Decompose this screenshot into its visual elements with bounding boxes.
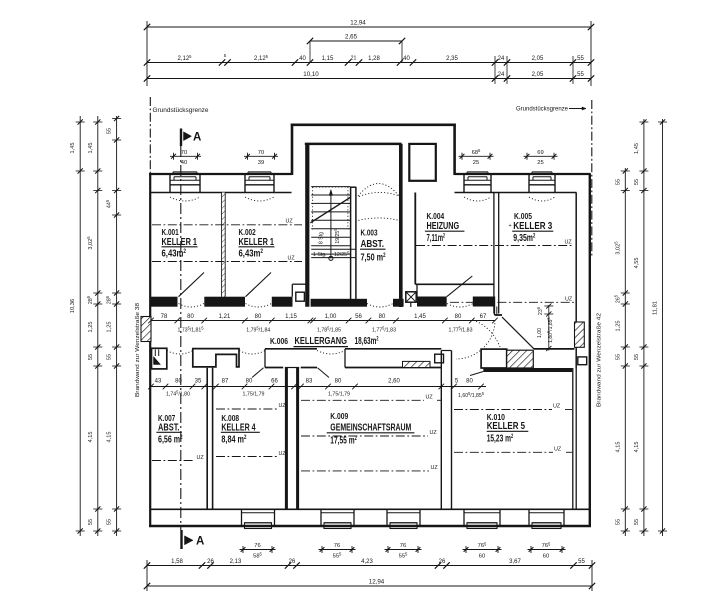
corridor dimension chain upper bbox=[151, 320, 495, 322]
partition wall K.001/K.002 bbox=[222, 193, 226, 297]
svg-text:4,15: 4,15 bbox=[634, 442, 640, 453]
window dimension bbox=[459, 155, 494, 157]
partition K.007/K.008 bbox=[206, 368, 208, 510]
interior wall right inner face (K.005 east) bbox=[575, 193, 577, 323]
svg-text:2,65: 2,65 bbox=[345, 34, 358, 41]
svg-text:6,43m2: 6,43m2 bbox=[162, 249, 187, 260]
svg-text:40: 40 bbox=[403, 56, 410, 62]
extension line left bbox=[146, 21, 148, 86]
corridor south wall segment 3 bbox=[265, 348, 317, 350]
entrance shaft box bbox=[409, 144, 436, 181]
dimension chain row top bbox=[147, 62, 591, 64]
svg-text:Brandwand zur Wenzelstraße 42: Brandwand zur Wenzelstraße 42 bbox=[597, 313, 603, 407]
corridor north wall segment 2 bbox=[204, 297, 245, 307]
svg-text:15,23 m2: 15,23 m2 bbox=[487, 434, 514, 445]
bottom window dimension bbox=[319, 549, 356, 551]
beam UZ line K.007 bbox=[152, 460, 195, 462]
svg-text:67: 67 bbox=[480, 314, 487, 320]
svg-text:K.004: K.004 bbox=[427, 212, 445, 221]
window dimension bbox=[524, 155, 558, 157]
svg-text:Brandwand zur Wenzelstraße 38: Brandwand zur Wenzelstraße 38 bbox=[135, 303, 141, 397]
svg-text:40: 40 bbox=[181, 160, 187, 166]
exterior wall top-left outer bbox=[149, 173, 292, 175]
window K.005 (top wall) bbox=[528, 175, 530, 193]
svg-text:69: 69 bbox=[537, 150, 543, 156]
dotted reveal arc window K.005 bbox=[529, 197, 555, 201]
partition K.008/K.009 west leaf bbox=[285, 368, 288, 510]
svg-text:9,35m2: 9,35m2 bbox=[513, 233, 535, 244]
svg-text:83: 83 bbox=[306, 379, 313, 385]
svg-text:2,35: 2,35 bbox=[446, 56, 458, 62]
svg-text:1,45: 1,45 bbox=[634, 143, 640, 154]
svg-text:17,55 m2: 17,55 m2 bbox=[330, 436, 357, 447]
svg-text:40: 40 bbox=[299, 56, 306, 62]
svg-text:60: 60 bbox=[479, 554, 485, 560]
svg-text:265​: 265​ bbox=[614, 294, 622, 303]
window dimension bbox=[170, 155, 201, 157]
hatched chimney right bbox=[507, 350, 534, 368]
svg-text:1,21: 1,21 bbox=[219, 314, 231, 320]
beam UZ line K.008 lower bbox=[216, 456, 278, 458]
bottom window dimension bbox=[240, 549, 276, 551]
stair walking line bbox=[330, 191, 332, 259]
svg-text:285​: 285​ bbox=[86, 295, 94, 304]
window K.010 west (bottom wall) bbox=[463, 509, 465, 526]
svg-text:1,00: 1,00 bbox=[325, 314, 337, 320]
door K.002 swing arc dotted bbox=[246, 304, 272, 308]
duct square in wall bbox=[435, 354, 444, 363]
corridor south wall segment 4 with chimney bbox=[345, 348, 441, 350]
svg-text:24: 24 bbox=[498, 72, 505, 78]
svg-text:55: 55 bbox=[634, 519, 640, 525]
svg-text:55: 55 bbox=[88, 519, 94, 525]
beam UZ line K.008 upper bbox=[216, 408, 278, 410]
bottom window dimension bbox=[385, 549, 422, 551]
bottom dimension chain bbox=[147, 565, 592, 567]
stair text row box bbox=[311, 248, 356, 250]
svg-text:55: 55 bbox=[107, 519, 113, 525]
svg-text:1,28: 1,28 bbox=[368, 56, 380, 62]
svg-text:4,15: 4,15 bbox=[107, 432, 113, 443]
corridor north wall segment 1 bbox=[151, 297, 178, 307]
svg-text:3,67: 3,67 bbox=[509, 559, 521, 565]
svg-text:285​: 285​ bbox=[105, 295, 113, 304]
meter box room at corridor west end bbox=[152, 348, 167, 369]
svg-text:K.003: K.003 bbox=[361, 229, 378, 238]
svg-text:K.006: K.006 bbox=[270, 337, 288, 346]
dimension row overall 12,94 top bbox=[147, 26, 591, 28]
section marker A bottom bbox=[180, 530, 182, 549]
svg-text:7,11m2: 7,11m2 bbox=[427, 233, 446, 244]
stairwell south wall east bbox=[393, 299, 404, 307]
svg-text:2,05: 2,05 bbox=[532, 72, 544, 78]
dotted reveal arc window K.004 bbox=[464, 197, 491, 201]
svg-text:12,94: 12,94 bbox=[369, 579, 385, 586]
hatched chimney in wall bbox=[403, 361, 431, 367]
svg-text:10,36: 10,36 bbox=[70, 299, 76, 314]
door K.007 swing arc dotted bbox=[167, 351, 193, 355]
svg-text:KELLER 1: KELLER 1 bbox=[239, 237, 275, 248]
svg-text:585​: 585​ bbox=[253, 552, 262, 560]
exterior wall top-right inner bbox=[455, 192, 577, 194]
svg-text:80: 80 bbox=[175, 379, 182, 385]
property line right (Grundstuecksgrenze) bbox=[591, 100, 593, 258]
extension line right bbox=[590, 21, 592, 86]
svg-text:26: 26 bbox=[289, 559, 296, 565]
raised entrance block right wall bbox=[453, 124, 456, 175]
svg-text:8,84 m2: 8,84 m2 bbox=[221, 434, 246, 445]
svg-text:55: 55 bbox=[634, 354, 640, 360]
door K.010 leaf bbox=[470, 372, 483, 376]
svg-text:GEMEINSCHAFTSRAUM: GEMEINSCHAFTSRAUM bbox=[330, 423, 411, 434]
stair break line diagonal bbox=[310, 197, 350, 223]
svg-text:80: 80 bbox=[466, 379, 473, 385]
svg-text:87: 87 bbox=[222, 379, 229, 385]
raised entrance block left wall bbox=[291, 124, 294, 175]
dimension row 2,65 bbox=[310, 40, 402, 42]
svg-text:1,775​/1,83: 1,775​/1,83 bbox=[449, 326, 473, 334]
svg-text:6,56 m2: 6,56 m2 bbox=[158, 434, 183, 445]
bottom window dimension bbox=[463, 549, 502, 551]
svg-text:11,81: 11,81 bbox=[653, 301, 659, 315]
door K.009 swing arc dotted bbox=[317, 351, 345, 355]
svg-text:KELLER 1: KELLER 1 bbox=[162, 237, 198, 248]
chimney flue box with X bbox=[406, 292, 416, 302]
svg-text:21: 21 bbox=[351, 56, 357, 62]
door K.001 leaf bbox=[179, 273, 205, 297]
svg-text:UZ: UZ bbox=[279, 403, 287, 409]
svg-text:1 Stg.: 1 Stg. bbox=[313, 252, 327, 258]
window K.009 west (bottom wall) bbox=[320, 509, 322, 526]
beam UZ line K.010 lower bbox=[454, 451, 553, 453]
door K.003 swing arc dotted bbox=[367, 304, 393, 308]
svg-text:UZ: UZ bbox=[553, 404, 561, 410]
svg-text:24: 24 bbox=[498, 56, 505, 62]
corridor north wall segment 3 bbox=[272, 297, 293, 307]
window dimension bbox=[244, 155, 278, 157]
K.009/K.010 partition bbox=[440, 351, 442, 510]
right dimension chains verticals bbox=[624, 168, 626, 536]
door K.008 swing arc dotted bbox=[239, 351, 265, 355]
svg-text:2,13: 2,13 bbox=[230, 559, 242, 565]
svg-text:UZ: UZ bbox=[426, 395, 434, 401]
svg-text:UZ: UZ bbox=[554, 446, 562, 452]
svg-text:55: 55 bbox=[107, 354, 113, 360]
svg-text:A: A bbox=[196, 536, 204, 548]
svg-text:2,05: 2,05 bbox=[532, 56, 544, 62]
svg-text:76: 76 bbox=[254, 543, 260, 549]
svg-text:6,43m2: 6,43m2 bbox=[239, 249, 264, 260]
svg-text:80: 80 bbox=[246, 379, 253, 385]
left dimension chains verticals bbox=[79, 116, 81, 536]
svg-text:UZ: UZ bbox=[288, 256, 296, 262]
svg-text:4,15: 4,15 bbox=[615, 442, 621, 453]
K.005 nook south line bbox=[534, 348, 575, 350]
svg-text:1,45: 1,45 bbox=[414, 314, 426, 320]
beam UZ line corridor right bbox=[450, 301, 574, 303]
svg-text:765​: 765​ bbox=[478, 541, 487, 549]
svg-text:KELLER 5: KELLER 5 bbox=[487, 421, 526, 432]
svg-text:55: 55 bbox=[615, 179, 621, 185]
svg-text:UZ: UZ bbox=[430, 430, 438, 436]
svg-text:235​: 235​ bbox=[536, 306, 544, 315]
svg-text:UZ: UZ bbox=[286, 219, 294, 225]
svg-text:A: A bbox=[193, 132, 201, 144]
svg-text:1,785​/1,85: 1,785​/1,85 bbox=[317, 326, 341, 334]
hatched pier left wall bbox=[141, 317, 151, 342]
svg-text:25: 25 bbox=[473, 160, 479, 166]
beam UZ line K.004/K.005 bbox=[416, 245, 574, 247]
raised entrance block outer top bbox=[291, 124, 456, 127]
window K.002 (top wall) bbox=[244, 175, 246, 193]
svg-text:18,63m2: 18,63m2 bbox=[355, 336, 379, 347]
K.010 east wall double bbox=[572, 368, 574, 509]
duct square right wall bbox=[578, 357, 587, 365]
svg-text:60: 60 bbox=[543, 554, 549, 560]
exterior wall top-right outer bbox=[455, 173, 591, 175]
svg-text:80: 80 bbox=[455, 314, 462, 320]
svg-text:39: 39 bbox=[258, 160, 264, 166]
svg-text:78: 78 bbox=[161, 314, 168, 320]
stairwell top wall inner bbox=[305, 143, 402, 146]
svg-text:K.001: K.001 bbox=[162, 228, 180, 237]
svg-text:K.002: K.002 bbox=[239, 228, 257, 237]
window K.004 (top wall) bbox=[463, 175, 465, 193]
svg-text:70: 70 bbox=[181, 150, 187, 156]
svg-text:555​: 555​ bbox=[333, 552, 342, 560]
svg-text:ABST.: ABST. bbox=[361, 239, 385, 250]
door K.010 swing arc dotted bbox=[456, 320, 495, 359]
svg-text:1,795​/1,84: 1,795​/1,84 bbox=[246, 326, 270, 334]
svg-text:1,805​/1,855​: 1,805​/1,855​ bbox=[546, 317, 554, 343]
svg-text:1,58: 1,58 bbox=[171, 559, 183, 565]
svg-text:1,745​/1,80: 1,745​/1,80 bbox=[166, 390, 190, 398]
svg-text:80: 80 bbox=[379, 314, 386, 320]
svg-text:12,94: 12,94 bbox=[350, 20, 366, 27]
svg-text:55: 55 bbox=[578, 559, 585, 565]
svg-text:1,75/1,79: 1,75/1,79 bbox=[243, 392, 265, 398]
svg-text:10,10: 10,10 bbox=[303, 71, 319, 78]
property line left (Grundstuecksgrenze) bbox=[149, 97, 151, 174]
svg-text:55: 55 bbox=[615, 519, 621, 525]
niche step at stairwell bbox=[291, 284, 293, 297]
svg-text:8 Stg: 8 Stg bbox=[318, 232, 324, 244]
svg-text:445​: 445​ bbox=[105, 199, 113, 208]
svg-text:55: 55 bbox=[577, 56, 584, 62]
door K.001 swing arc dotted bbox=[179, 304, 205, 308]
bottom overall dimension 12,94 bbox=[147, 585, 592, 587]
svg-text:80: 80 bbox=[255, 314, 262, 320]
svg-text:5: 5 bbox=[224, 53, 227, 58]
svg-text:80: 80 bbox=[335, 379, 342, 385]
K.004/K.005 wall bbox=[493, 193, 495, 314]
svg-text:76: 76 bbox=[334, 543, 340, 549]
vertical dimension door right corridor bbox=[548, 305, 550, 351]
step down to K.005 door jamb bbox=[494, 307, 496, 316]
K.004 west wall bbox=[414, 193, 416, 285]
K.004 south wall band bbox=[417, 297, 447, 307]
beam UZ line K.001/K.002 lower bbox=[152, 261, 302, 263]
svg-text:1,25: 1,25 bbox=[88, 322, 94, 333]
stair newel wall bbox=[350, 187, 352, 299]
svg-text:1,605​/1,855​: 1,605​/1,855​ bbox=[458, 391, 485, 399]
svg-text:76: 76 bbox=[400, 543, 406, 549]
svg-text:K.005: K.005 bbox=[514, 212, 532, 221]
door K.005 swing arc dotted bbox=[473, 320, 500, 347]
svg-text:1,15: 1,15 bbox=[285, 314, 297, 320]
svg-text:55: 55 bbox=[615, 354, 621, 360]
exterior wall bottom inner bbox=[151, 508, 589, 510]
svg-text:70: 70 bbox=[258, 150, 264, 156]
svg-text:K.009: K.009 bbox=[330, 412, 348, 421]
section line A-A vertical dash-dot bbox=[180, 146, 182, 530]
svg-text:26: 26 bbox=[439, 559, 446, 565]
partition K.008/K.009 east leaf bbox=[296, 368, 299, 510]
door K.004 leaf bbox=[447, 276, 473, 297]
svg-text:55: 55 bbox=[634, 179, 640, 185]
exterior wall bottom outer bbox=[149, 525, 591, 527]
dimension row 10,10 bbox=[147, 78, 591, 80]
svg-text:2,60: 2,60 bbox=[388, 379, 400, 385]
svg-text:1,25: 1,25 bbox=[615, 321, 621, 332]
entrance door swing dotted at stair top bbox=[358, 184, 399, 197]
svg-text:55: 55 bbox=[577, 72, 584, 78]
svg-text:80: 80 bbox=[187, 314, 194, 320]
svg-text:1,45: 1,45 bbox=[88, 143, 94, 154]
stairwell west wall (K.002 east) bbox=[305, 144, 309, 307]
wall between K.004 door and K.005 corner bbox=[473, 297, 495, 307]
svg-text:4,15: 4,15 bbox=[88, 432, 94, 443]
beam UZ line K.009 1 bbox=[301, 399, 424, 401]
svg-text:56: 56 bbox=[355, 314, 362, 320]
entrance door second dotted arc bbox=[359, 192, 400, 196]
corridor south wall box segment with niche bbox=[193, 349, 239, 367]
door K.002 leaf bbox=[246, 273, 272, 297]
svg-text:KELLER 3: KELLER 3 bbox=[513, 221, 552, 232]
svg-text:UZ: UZ bbox=[565, 296, 573, 302]
svg-text:1,735​/1,815​: 1,735​/1,815​ bbox=[178, 326, 205, 334]
svg-text:1,75/1,79: 1,75/1,79 bbox=[328, 392, 350, 398]
stairwell south wall west bbox=[311, 299, 367, 307]
svg-text:66: 66 bbox=[271, 379, 278, 385]
window K.001 (top wall) bbox=[169, 175, 171, 193]
hatched pier right wall bbox=[575, 322, 585, 347]
svg-text:UZ: UZ bbox=[565, 240, 573, 246]
exterior wall top-left inner bbox=[151, 192, 292, 194]
svg-text:1,45: 1,45 bbox=[70, 143, 76, 154]
stairwell/K.003 east wall bbox=[399, 144, 403, 307]
K.010 north wall band bbox=[483, 368, 572, 372]
K.004 floor inner line bbox=[415, 283, 494, 285]
svg-text:1,25: 1,25 bbox=[107, 322, 113, 333]
svg-text:1,775​/1,83: 1,775​/1,83 bbox=[372, 326, 396, 334]
dotted reveal arc window K.001 bbox=[170, 197, 200, 201]
door K.005 leaf diagonal bbox=[502, 317, 534, 349]
svg-text:KELLERGANG: KELLERGANG bbox=[295, 336, 348, 347]
svg-text:7,50 m2: 7,50 m2 bbox=[361, 253, 386, 264]
svg-text:26: 26 bbox=[207, 559, 214, 565]
door K.004 swing arc dotted bbox=[447, 304, 473, 308]
stair dotted upper flight bbox=[312, 187, 314, 230]
svg-text:4,55: 4,55 bbox=[634, 258, 640, 269]
beam UZ line K.001/K.002 upper bbox=[152, 224, 302, 226]
svg-text:35: 35 bbox=[195, 379, 202, 385]
beam UZ line K.009 3 bbox=[301, 470, 429, 472]
svg-text:55: 55 bbox=[107, 128, 113, 134]
corridor dimension chain lower bbox=[151, 386, 486, 388]
svg-text:1,15: 1,15 bbox=[322, 56, 334, 62]
box left of hatched chimney right bbox=[481, 349, 507, 368]
svg-text:UZ: UZ bbox=[431, 465, 439, 471]
svg-text:25: 25 bbox=[537, 160, 543, 166]
bottom window dimension bbox=[528, 549, 566, 551]
svg-text:Grundstücksgrenze: Grundstücksgrenze bbox=[516, 106, 569, 113]
exterior wall right outer bbox=[589, 174, 591, 528]
stair flight steps bbox=[311, 186, 350, 188]
svg-text:555​: 555​ bbox=[399, 552, 408, 560]
svg-text:1,00: 1,00 bbox=[537, 328, 543, 338]
window K.010 east (bottom wall) bbox=[528, 509, 530, 526]
window K.008 (bottom wall) bbox=[241, 509, 243, 526]
svg-text:UZ: UZ bbox=[279, 451, 287, 457]
door K.008 leaf bbox=[252, 368, 264, 378]
window K.009 east (bottom wall) bbox=[386, 509, 388, 526]
beam UZ line K.009 2 bbox=[301, 435, 428, 437]
section marker A top bbox=[180, 129, 182, 147]
svg-text:765​: 765​ bbox=[542, 541, 551, 549]
svg-text:Grundstücksgrenze: Grundstücksgrenze bbox=[153, 107, 210, 114]
door K.009 leaf bbox=[318, 368, 330, 378]
svg-text:55: 55 bbox=[88, 354, 94, 360]
svg-text:HEIZUNG: HEIZUNG bbox=[427, 221, 460, 232]
svg-text:43: 43 bbox=[155, 379, 162, 385]
exterior wall left bbox=[149, 174, 151, 528]
svg-text:4,23: 4,23 bbox=[361, 559, 373, 565]
svg-text:685​: 685​ bbox=[472, 148, 481, 156]
svg-text:+: + bbox=[509, 223, 512, 229]
duct square near stairwell bbox=[296, 292, 305, 301]
beam UZ line K.010 upper bbox=[454, 409, 552, 411]
dotted reveal arc window K.002 bbox=[245, 197, 274, 201]
svg-text:UZ: UZ bbox=[197, 455, 205, 461]
